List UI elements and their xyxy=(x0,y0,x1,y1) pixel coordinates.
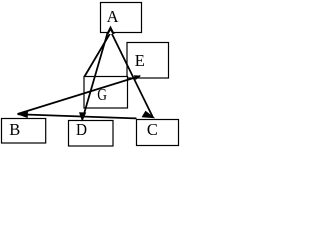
arrowhead into C xyxy=(142,111,156,119)
arrowhead into D xyxy=(79,112,86,121)
wire A to C xyxy=(112,33,154,118)
arrowhead into B xyxy=(17,111,28,118)
wire C to B xyxy=(18,114,137,118)
arrowhead into E xyxy=(134,75,141,80)
arrowhead into A xyxy=(106,26,114,35)
node G box xyxy=(84,77,128,109)
svg-text:C: C xyxy=(147,120,158,139)
node A box xyxy=(101,3,142,33)
node E box xyxy=(127,43,169,79)
svg-text:A: A xyxy=(107,7,119,26)
wire B to E xyxy=(18,76,141,114)
wire G to A xyxy=(85,34,111,77)
arrowhead notch xyxy=(109,31,113,34)
node C box xyxy=(137,120,179,146)
wire A to D xyxy=(82,33,107,120)
node B box xyxy=(2,119,46,144)
node D box xyxy=(69,121,114,147)
svg-text:E: E xyxy=(135,51,145,70)
svg-text:D: D xyxy=(76,120,87,139)
svg-text:B: B xyxy=(9,120,20,139)
